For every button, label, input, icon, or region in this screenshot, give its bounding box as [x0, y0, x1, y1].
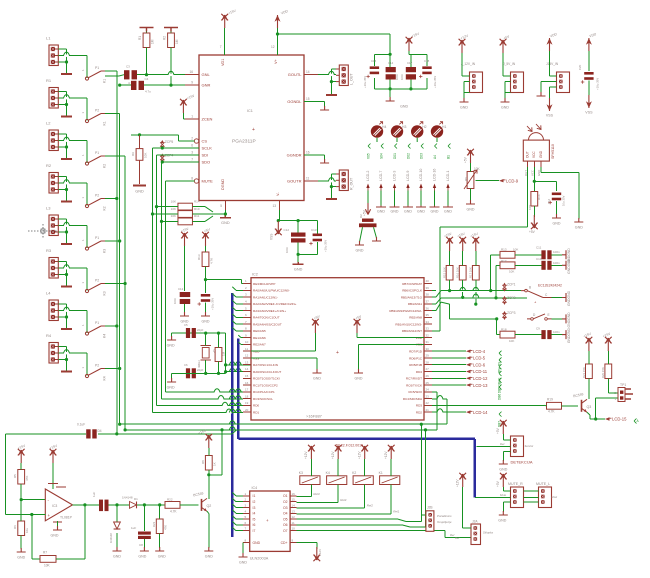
- junction R1: [65, 103, 68, 106]
- svg-text:4.7K: 4.7K: [170, 510, 177, 514]
- junction: [277, 219, 280, 222]
- wire CS: [131, 135, 194, 141]
- wire R3 pin3: [58, 274, 66, 276]
- ground Q2: [204, 547, 213, 559]
- wire: [184, 304, 186, 313]
- svg-text:PGA2311P: PGA2311P: [232, 139, 256, 145]
- wire O7 to J2A: [297, 531, 471, 538]
- wire bus entry pin 2: [232, 287, 243, 291]
- LED H1: [431, 122, 447, 138]
- svg-text:Q2: Q2: [207, 504, 212, 508]
- net flag S04: [379, 144, 383, 160]
- supply arrow VDD: [586, 32, 598, 51]
- svg-text:RE1/AN6: RE1/AN6: [253, 336, 266, 340]
- capacitor: [366, 66, 379, 78]
- supply arrow +15V: [180, 226, 190, 246]
- svg-text:10K: 10K: [171, 199, 176, 203]
- wire bus entry pin 6: [232, 314, 243, 318]
- wire L2 pin3: [58, 146, 66, 148]
- wire ULN gnd: [242, 543, 244, 554]
- bus B1 vertical: [231, 293, 233, 537]
- wire: [373, 54, 375, 66]
- svg-text:RE0/AN5: RE0/AN5: [253, 329, 266, 333]
- supply arrow +15V: [406, 31, 421, 51]
- svg-text:LCD-13: LCD-13: [473, 383, 488, 388]
- svg-text:+5V: +5V: [463, 156, 467, 163]
- wire trio to DGND: [213, 213, 225, 215]
- net flag A4: [433, 144, 437, 160]
- net flag V05: [366, 144, 370, 160]
- junction R_OUT: [330, 185, 333, 188]
- pin CS IC1: [194, 139, 198, 143]
- wire +5V in: [503, 53, 511, 76]
- svg-text:LCD-3: LCD-3: [393, 171, 397, 181]
- ground L1: [61, 73, 72, 75]
- pin 21 IC2 RD2: [424, 411, 432, 413]
- junction: [224, 212, 227, 215]
- pin 6 IC2 RA4/T0CKI/C1OUT: [243, 316, 251, 318]
- relay contact K3: [85, 279, 106, 296]
- wire to J2B pin2: [425, 430, 427, 521]
- svg-text:O4: O4: [283, 512, 288, 516]
- svg-text:J_12V_IN: J_12V_IN: [461, 62, 476, 66]
- svg-text:GND: GND: [575, 226, 583, 230]
- svg-text:Rel2: Rel2: [367, 504, 374, 508]
- svg-text:CD+: CD+: [281, 541, 288, 545]
- net label LCD-12: [466, 376, 488, 381]
- wire R2 pin1 to gnd: [58, 177, 66, 201]
- relay contact K2: [85, 151, 106, 168]
- wire R11 right: [193, 216, 214, 221]
- svg-text:J_5V_IN: J_5V_IN: [503, 62, 516, 66]
- supply arrow +12V: [313, 547, 320, 561]
- svg-text:LCD-1: LCD-1: [446, 171, 450, 181]
- wire L3 pin1 to gnd: [58, 219, 66, 243]
- svg-text:R22: R22: [167, 498, 173, 502]
- analog ground bar: [164, 28, 178, 32]
- supply arrow +15V: [49, 443, 59, 463]
- svg-text:Sklopka: Sklopka: [483, 531, 493, 535]
- relay contact K1: [85, 66, 106, 83]
- wire R13 to MCLR: [206, 280, 252, 284]
- ground J15V_IN: [537, 92, 546, 96]
- svg-text:C11: C11: [536, 246, 542, 250]
- svg-text:GND: GND: [253, 541, 261, 545]
- net flag DB5: [497, 378, 501, 394]
- svg-text:EC12E2424242: EC12E2424242: [538, 284, 562, 288]
- wire ZCEN: [183, 113, 185, 119]
- junction L1: [65, 60, 68, 63]
- wire R_OUT to gnd: [330, 187, 332, 198]
- wire MUTE_R to MUTE_L: [524, 501, 539, 503]
- svg-text:L3: L3: [46, 206, 51, 211]
- wire R2 down: [170, 48, 172, 86]
- wire Q2 emitter: [207, 511, 209, 548]
- net flag E: [497, 364, 501, 380]
- svg-text:VSS: VSS: [270, 234, 274, 240]
- wire: [556, 201, 558, 215]
- wire VDD to V+: [277, 28, 279, 55]
- pin 38 IC2 RB5/AN13/T1G: [424, 296, 432, 298]
- svg-text:LCD-14: LCD-14: [473, 410, 488, 415]
- capacitor: [541, 250, 551, 259]
- wire up to R17f: [496, 265, 500, 298]
- wire to Q2 base: [180, 504, 199, 506]
- ground C9: [562, 328, 571, 344]
- wire L2 pin1 to gnd: [58, 134, 66, 158]
- svg-text:LCD-15: LCD-15: [612, 417, 627, 422]
- LED H3: [391, 122, 407, 138]
- LED H4: [371, 122, 387, 138]
- svg-text:100n: 100n: [553, 261, 560, 265]
- junction: [204, 332, 207, 335]
- ground column 4: [403, 206, 413, 208]
- svg-text:13: 13: [292, 509, 296, 513]
- svg-text:GND: GND: [356, 249, 364, 253]
- svg-text:R5: R5: [13, 474, 17, 478]
- svg-text:ULN2003A: ULN2003A: [250, 557, 269, 561]
- supply arrow +5V: [463, 149, 474, 163]
- wire V- down: [278, 210, 279, 221]
- svg-text:Rel: Rel: [450, 533, 455, 537]
- svg-text:I4: I4: [253, 512, 256, 516]
- wire L1 pin3: [58, 61, 66, 63]
- wire enc C to gnd: [552, 297, 562, 299]
- wire MUTE: [166, 180, 195, 182]
- svg-text:R20 15K: R20 15K: [601, 367, 605, 378]
- wire to J2B pin1: [421, 424, 426, 515]
- wire SCLK: [153, 147, 200, 149]
- svg-text:RA1/AN1/C12IN1-: RA1/AN1/C12IN1-: [253, 295, 278, 299]
- wire CD+ to +12V: [297, 543, 317, 549]
- wire: [297, 243, 299, 255]
- hop R1: [64, 97, 69, 99]
- svg-text:1: 1: [191, 115, 193, 119]
- svg-text:C13: C13: [311, 228, 317, 232]
- wire lower run A: [120, 423, 447, 425]
- svg-text:37: 37: [426, 300, 430, 304]
- svg-text:13: 13: [245, 360, 249, 364]
- svg-text:+: +: [336, 350, 339, 356]
- wire bus entry I7: [232, 527, 243, 531]
- svg-text:+5V: +5V: [529, 230, 536, 234]
- net arrow LCD-16: [433, 184, 436, 191]
- hop OSC1 over B2: [235, 362, 241, 365]
- svg-text:C16: C16: [547, 198, 551, 204]
- wire to gnd: [389, 89, 391, 97]
- net flag D02: [406, 144, 410, 160]
- wire 5v gnd pins: [505, 82, 511, 93]
- wire to VSS: [550, 87, 557, 98]
- wire R17 down: [475, 280, 477, 304]
- wire L_OUT to gnd: [330, 82, 332, 94]
- wire switch tap: [105, 198, 117, 200]
- LED stubs: [376, 138, 378, 142]
- wire SDI vertical: [156, 155, 158, 406]
- svg-text:ZCP5: ZCP5: [165, 140, 174, 144]
- svg-text:RB4/AN11: RB4/AN11: [408, 302, 422, 306]
- svg-text:Rel3: Rel3: [313, 492, 320, 496]
- svg-text:Det: Det: [500, 442, 505, 446]
- svg-text:100n: 100n: [395, 73, 399, 80]
- wire R_OUT pin1 down: [331, 174, 336, 187]
- pin GNR IC1: [185, 84, 199, 86]
- svg-text:VSS: VSS: [585, 111, 593, 115]
- ground encoder C: [562, 290, 571, 306]
- svg-text:GND: GND: [51, 534, 59, 538]
- svg-text:C10: C10: [536, 257, 542, 261]
- pin 31 IC2 VSS: [424, 343, 432, 345]
- wire +12V in: [462, 53, 470, 76]
- wire column LCD-9: [407, 191, 409, 206]
- wire audio bus B: [105, 114, 120, 425]
- ground column 7: [443, 206, 453, 208]
- pin 19 IC2 RD0: [243, 404, 251, 406]
- svg-text:SDI: SDI: [202, 153, 209, 158]
- jumper ZCP4: [160, 154, 173, 163]
- capacitor: [186, 368, 196, 378]
- wire rail right top: [219, 332, 226, 334]
- svg-text:GND: GND: [138, 555, 146, 559]
- ground D2b: [372, 237, 381, 241]
- svg-text:O3: O3: [283, 506, 288, 510]
- resistor R1: [143, 33, 150, 48]
- supply arrow +12V: [456, 473, 467, 487]
- capacitor: [138, 532, 151, 540]
- svg-text:+12V: +12V: [456, 479, 460, 487]
- pin I5 IC4: [243, 518, 250, 520]
- wire: [218, 362, 220, 374]
- supply arrow +5V: [496, 420, 507, 434]
- wire bus entry pin 9: [238, 335, 243, 338]
- svg-text:5: 5: [220, 204, 222, 208]
- hop L3: [64, 225, 69, 227]
- svg-text:10K: 10K: [513, 248, 518, 252]
- wire bus entry I4: [232, 510, 243, 514]
- svg-text:ZCEN: ZCEN: [202, 117, 213, 122]
- svg-text:R9: R9: [131, 152, 135, 156]
- relay contact K1: [85, 109, 106, 126]
- svg-text:40: 40: [426, 279, 430, 283]
- pin 13 IC2 RA7/OSC1/CLKIN: [243, 364, 251, 366]
- svg-text:+: +: [266, 518, 269, 523]
- svg-text:K4: K4: [103, 334, 107, 338]
- wire L3 pin3: [58, 231, 66, 233]
- wire encoder row1: [432, 291, 491, 297]
- wire K1 to ULN O4: [297, 485, 392, 514]
- svg-text:K3: K3: [103, 249, 107, 253]
- junction: [424, 428, 427, 431]
- svg-text:ZCP1: ZCP1: [507, 283, 516, 287]
- capacitor: [198, 294, 211, 306]
- connector J15V_IN: [557, 72, 570, 93]
- svg-text:RC5/SDO: RC5/SDO: [408, 390, 422, 394]
- connector J_12V_IN: [470, 72, 483, 93]
- svg-text:D03: D03: [419, 153, 423, 159]
- svg-text:O1: O1: [283, 494, 288, 498]
- pin 36 IC2 RB3/AN9/PGM/C12IN2-: [424, 310, 432, 312]
- svg-text:IC3: IC3: [52, 504, 57, 508]
- pin 24 IC2 RC5/SDO: [424, 391, 432, 393]
- wire switch tap: [105, 368, 120, 370]
- pin 34 IC2 RB1/AN10/C12IN3-: [424, 323, 432, 325]
- wire to C16: [534, 181, 556, 191]
- supply arrow +5V: [500, 34, 511, 53]
- supply arrow +5V: [312, 314, 321, 333]
- svg-text:14: 14: [306, 70, 310, 74]
- supply arrow +5V: [496, 473, 507, 487]
- junction: [151, 212, 154, 215]
- wire: [205, 333, 207, 345]
- svg-text:25: 25: [426, 381, 430, 385]
- wire decoupling rail: [278, 220, 317, 222]
- wire O5: [297, 515, 422, 522]
- pin I3 IC4: [243, 507, 250, 509]
- svg-text:GND: GND: [553, 222, 561, 226]
- ground opamp: [51, 526, 63, 538]
- wire emitter node: [590, 418, 605, 420]
- wire R_OUT pin3: [331, 186, 336, 188]
- wire R1 pin3: [58, 104, 66, 106]
- svg-text:16: 16: [306, 151, 310, 155]
- pin GOUTR IC1: [304, 180, 318, 182]
- svg-text:R1: R1: [138, 36, 142, 40]
- junction: [30, 513, 33, 516]
- wire OSC1: [226, 364, 251, 366]
- svg-text:E: E: [548, 313, 550, 317]
- wire LCD-12: [432, 377, 466, 379]
- hop over B1: [229, 402, 235, 405]
- wire LCD-6: [432, 364, 466, 366]
- svg-text:R19: R19: [547, 398, 553, 402]
- svg-text:R1: R1: [46, 78, 52, 83]
- svg-text:+10u 35V: +10u 35V: [433, 76, 437, 88]
- wire MUTE to RC3: [166, 391, 243, 393]
- junction L4: [65, 315, 68, 318]
- svg-text:R15 10K: R15 10K: [443, 267, 447, 278]
- svg-text:GND: GND: [404, 210, 412, 214]
- svg-text:47K: 47K: [25, 476, 29, 481]
- svg-text:H4: H4: [382, 125, 386, 129]
- wire IR VCC: [533, 167, 535, 196]
- junction R9 top: [138, 133, 141, 136]
- svg-text:K2: K2: [352, 471, 356, 475]
- svg-text:39: 39: [426, 286, 430, 290]
- pin ZCEN IC1: [185, 118, 199, 120]
- wire VSS left: [251, 358, 317, 369]
- svg-text:11: 11: [292, 521, 295, 525]
- svg-text:D4: D4: [98, 429, 102, 433]
- svg-text:RB6/ICSPCLK: RB6/ICSPCLK: [402, 289, 422, 293]
- junction L2: [65, 145, 68, 148]
- ground switch DE: [562, 312, 571, 328]
- svg-text:RB5/AN13/T1G: RB5/AN13/T1G: [401, 295, 423, 299]
- pin 1 IC2 RE3/MCLR/VPP: [243, 283, 251, 285]
- pin 4 IC2 RA2/AN2/VREF-/CVREF/C2IN+: [243, 303, 251, 305]
- svg-text:IC1: IC1: [247, 109, 253, 113]
- svg-text:R17 10K: R17 10K: [469, 267, 473, 278]
- wire R10 right: [193, 213, 214, 215]
- pin I2 IC4: [243, 501, 250, 503]
- wire R4 pin2 to switch: [58, 353, 87, 376]
- capacitor: [86, 429, 97, 438]
- junction: [204, 278, 207, 281]
- hop run B over B1: [229, 427, 235, 430]
- pin GND IC4: [243, 542, 250, 544]
- net flag B1: [446, 144, 450, 160]
- svg-text:GND: GND: [417, 210, 425, 214]
- svg-text:L4: L4: [46, 291, 51, 296]
- svg-text:R4: R4: [46, 333, 52, 338]
- wire: [504, 93, 506, 100]
- wire IR GND: [541, 167, 579, 219]
- svg-text:V05: V05: [366, 153, 370, 159]
- svg-text:21: 21: [426, 408, 430, 412]
- supply arrow relay K4 +12V: [331, 445, 342, 459]
- junction L_OUT: [330, 80, 333, 83]
- wire R14 right: [193, 207, 214, 212]
- svg-text:20: 20: [245, 408, 249, 412]
- net flag DB4: [497, 371, 501, 387]
- wire bus entry pin 7: [232, 321, 243, 325]
- wire: [171, 333, 173, 337]
- svg-text:J15V_IN: J15V_IN: [546, 62, 559, 66]
- net flag DB7: [497, 412, 501, 428]
- svg-text:RD6/P1C: RD6/P1C: [409, 356, 423, 360]
- wire: [116, 533, 118, 548]
- wire to C13b: [316, 221, 318, 234]
- wire K1 to C3: [105, 75, 124, 76]
- pin O2 IC4: [290, 501, 297, 503]
- connector MUTE_R body: [511, 487, 524, 508]
- svg-text:+10u 35V: +10u 35V: [324, 240, 328, 252]
- svg-text:10K: 10K: [44, 564, 51, 568]
- pin SDI IC1: [185, 154, 199, 156]
- junction: [115, 432, 118, 435]
- ground C7: [201, 312, 210, 324]
- wire row3 down: [450, 304, 497, 319]
- transistor Q3: [573, 392, 591, 412]
- wire K3 to ULN O1: [297, 485, 312, 497]
- svg-text:C5: C5: [184, 323, 188, 327]
- pin 27 IC2 RD4: [424, 371, 432, 373]
- ground L4: [61, 328, 72, 330]
- wire R4 pin1 to gnd: [58, 347, 66, 371]
- svg-text:12: 12: [245, 354, 249, 358]
- junction: [217, 332, 220, 335]
- svg-text:R2: R2: [46, 163, 52, 168]
- svg-text:GND: GND: [499, 468, 507, 472]
- junction ZCP4: [161, 160, 164, 163]
- net flag RW: [497, 357, 501, 373]
- wire Q3 emitter: [587, 412, 590, 419]
- net flag A: [634, 419, 640, 424]
- svg-text:10K: 10K: [171, 207, 176, 211]
- net arrow LCD-2: [366, 184, 369, 191]
- wire bus entry pin 10: [238, 342, 243, 345]
- wire L1 pin1 to gnd: [58, 49, 66, 73]
- net arrow LCD-9: [406, 184, 409, 191]
- wire: [170, 32, 172, 34]
- wire cap bank bottom rail: [374, 88, 427, 90]
- resistor: [165, 502, 180, 509]
- svg-text:GND: GND: [221, 221, 230, 225]
- wire: [410, 54, 412, 67]
- wire L3 pin2 to switch: [58, 226, 87, 249]
- svg-text:1M: 1M: [151, 39, 155, 44]
- pin O5 IC4: [290, 518, 297, 520]
- wire: [515, 254, 541, 256]
